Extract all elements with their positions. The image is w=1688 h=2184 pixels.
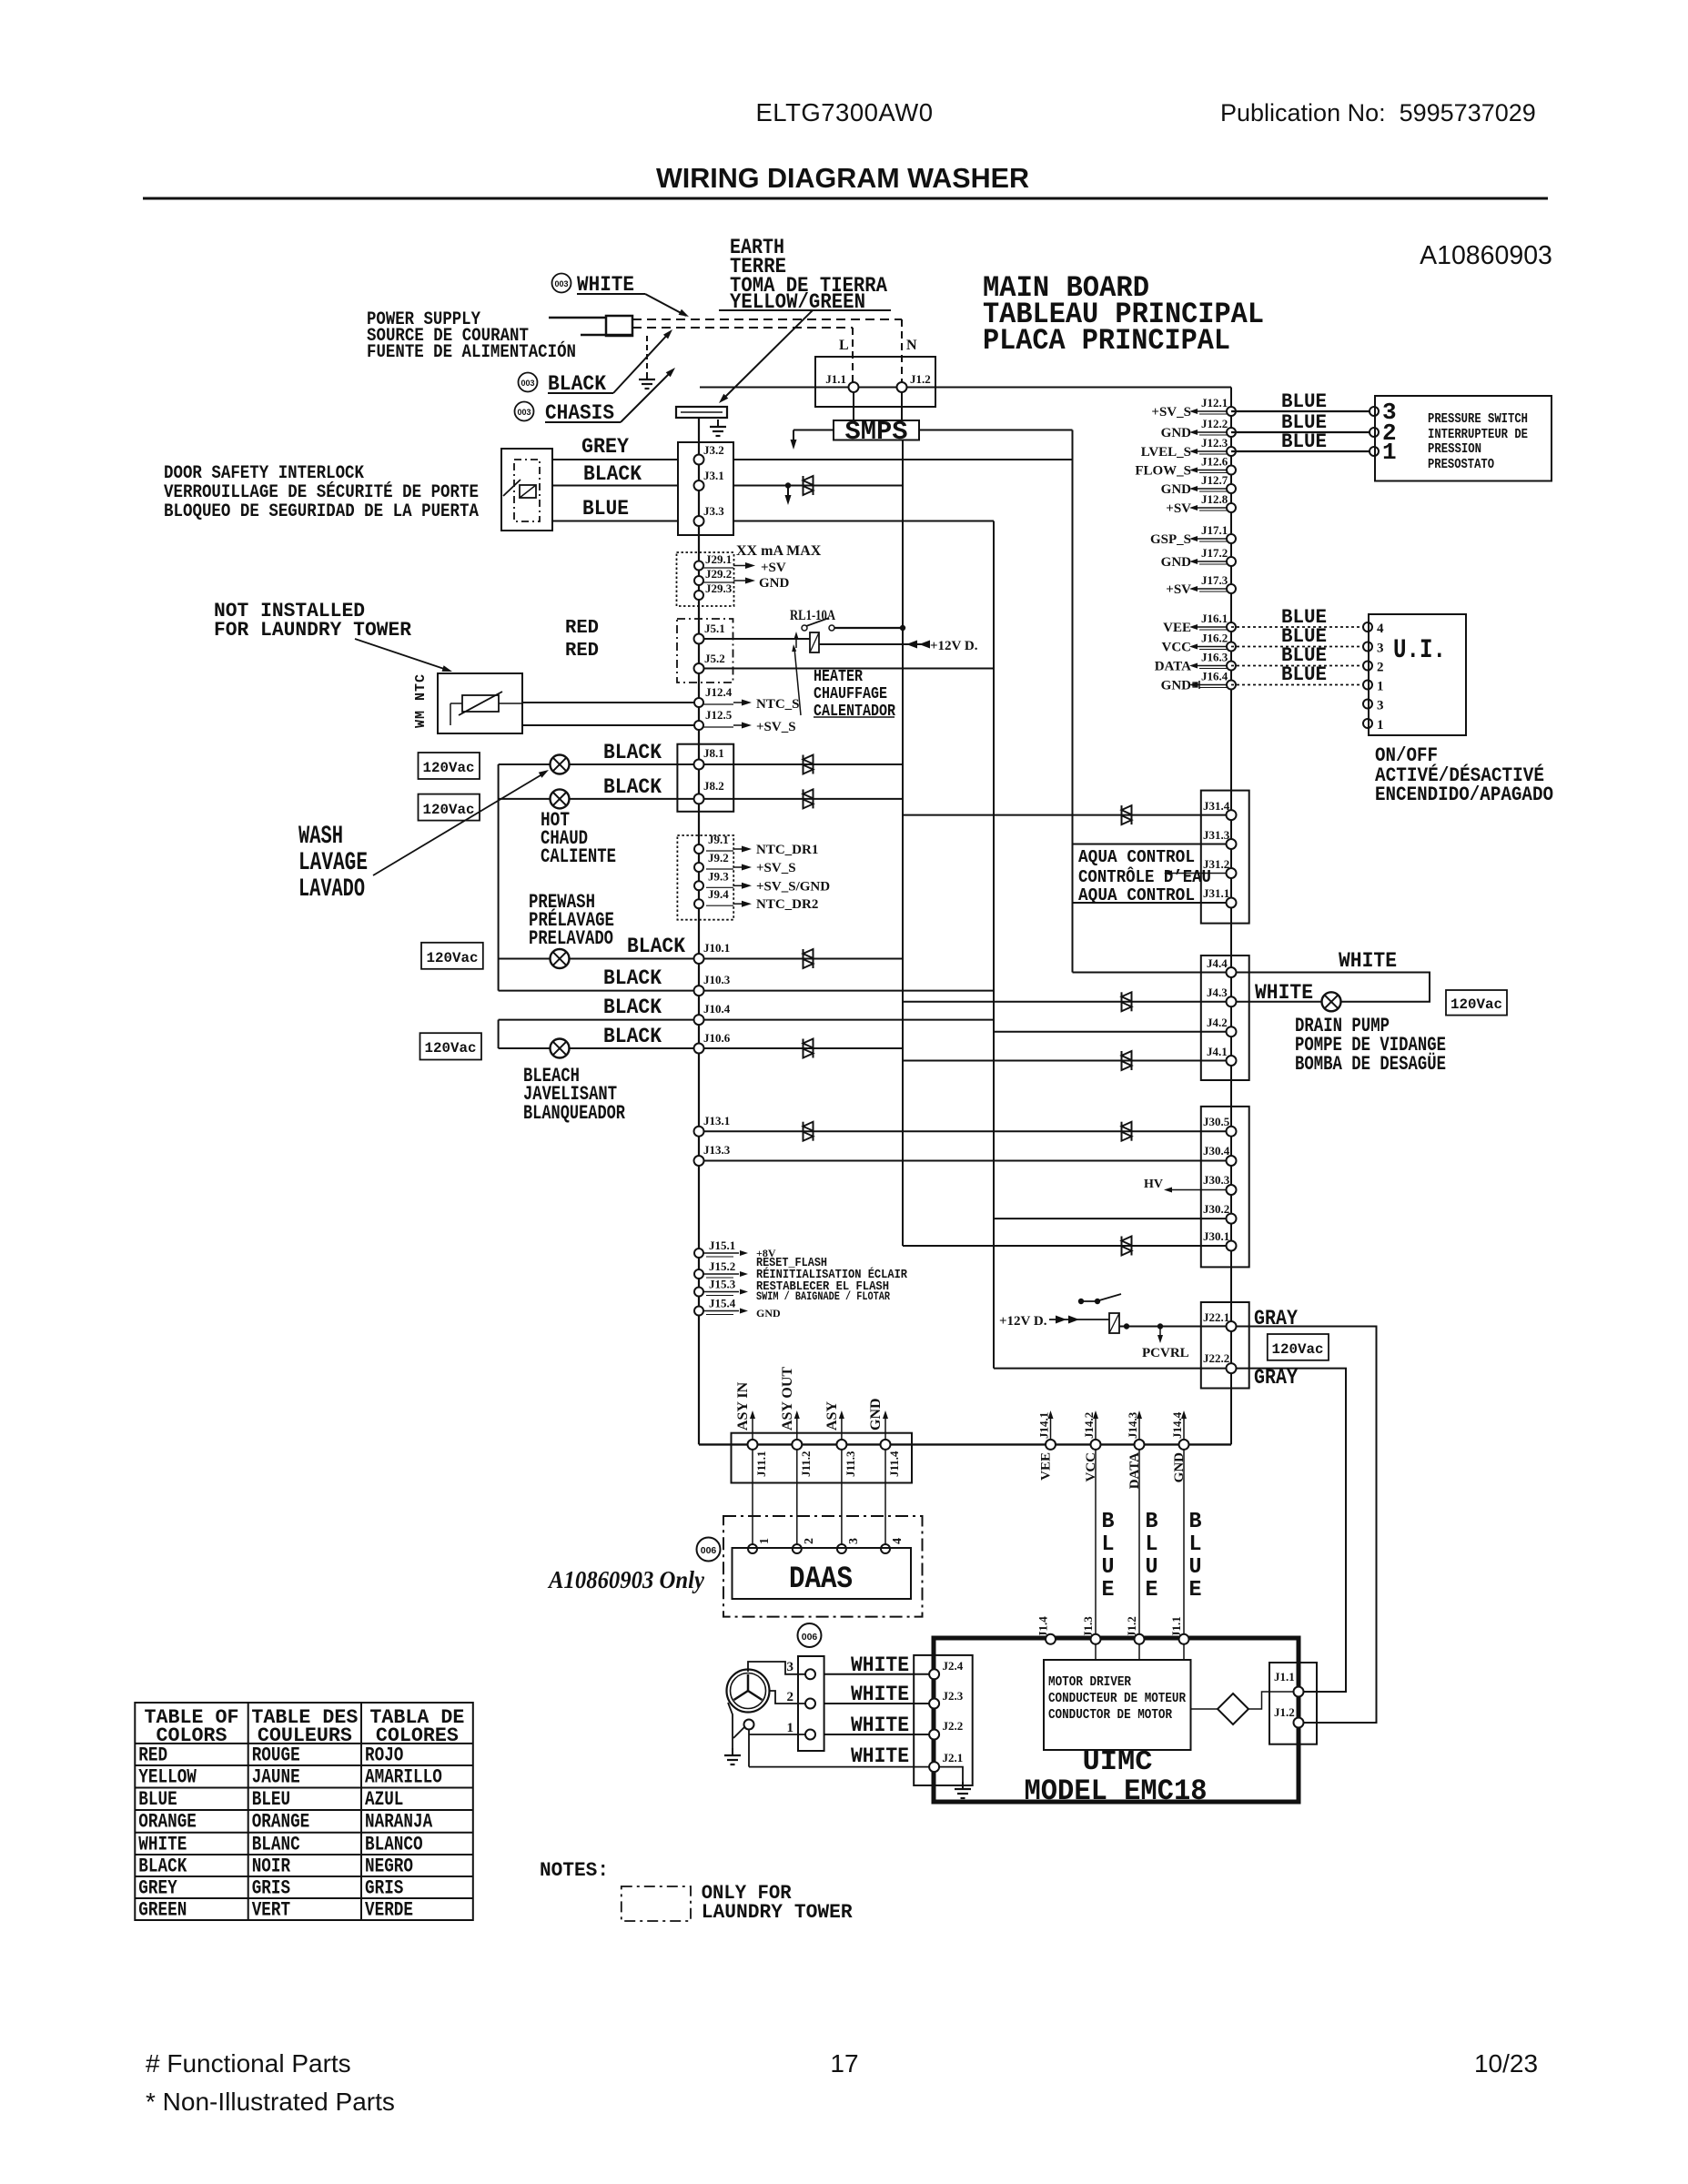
- svg-text:ASY IN: ASY IN: [735, 1381, 751, 1431]
- svg-text:VEE: VEE: [1163, 621, 1191, 635]
- svg-text:CONDUCTEUR DE MOTEUR: CONDUCTEUR DE MOTEUR: [1048, 1691, 1186, 1706]
- svg-text:+12V D.: +12V D.: [930, 639, 978, 653]
- svg-text:BLACK: BLACK: [603, 1025, 662, 1048]
- svg-text:10/23: 10/23: [1474, 2049, 1538, 2078]
- svg-text:GREEN: GREEN: [138, 1899, 187, 1922]
- svg-text:3: 3: [847, 1538, 861, 1544]
- svg-text:J14.4: J14.4: [1170, 1411, 1184, 1439]
- svg-text:U.I.: U.I.: [1393, 635, 1446, 666]
- svg-text:J16.4: J16.4: [1201, 670, 1228, 683]
- svg-text:2: 2: [787, 1690, 794, 1704]
- svg-text:WHITE: WHITE: [1339, 949, 1397, 973]
- svg-text:BLUE: BLUE: [1281, 430, 1327, 453]
- svg-text:J3.3: J3.3: [703, 504, 724, 518]
- svg-text:J12.7: J12.7: [1201, 473, 1228, 487]
- svg-text:WHITE: WHITE: [851, 1714, 909, 1737]
- svg-text:J16.2: J16.2: [1201, 632, 1228, 645]
- svg-text:HV: HV: [1144, 1178, 1163, 1191]
- svg-text:NTC_S: NTC_S: [756, 697, 800, 712]
- svg-text:LVEL_S: LVEL_S: [1141, 445, 1191, 460]
- svg-text:RED: RED: [565, 618, 599, 639]
- svg-text:GRAY: GRAY: [1254, 1366, 1298, 1390]
- svg-text:PCVRL: PCVRL: [1142, 1346, 1189, 1360]
- svg-text:120Vac: 120Vac: [425, 1040, 477, 1057]
- svg-text:GND: GND: [1161, 555, 1192, 570]
- svg-text:J5.1: J5.1: [704, 622, 725, 635]
- svg-text:ROJO: ROJO: [365, 1744, 403, 1766]
- svg-text:A10860903 Only: A10860903 Only: [547, 1566, 705, 1593]
- svg-text:UIMC: UIMC: [1083, 1746, 1153, 1778]
- svg-text:LAVAGE: LAVAGE: [298, 849, 368, 877]
- svg-text:GREY: GREY: [581, 435, 629, 459]
- svg-text:WASH: WASH: [298, 823, 343, 851]
- svg-text:J22.1: J22.1: [1203, 1310, 1229, 1324]
- svg-text:120Vac: 120Vac: [427, 950, 479, 966]
- svg-text:J15.2: J15.2: [709, 1259, 735, 1273]
- svg-text:J16.3: J16.3: [1201, 651, 1228, 664]
- svg-text:J30.4: J30.4: [1203, 1144, 1230, 1158]
- svg-text:J10.4: J10.4: [703, 1002, 731, 1016]
- svg-text:U: U: [1102, 1555, 1115, 1580]
- svg-text:NEGRO: NEGRO: [365, 1855, 413, 1878]
- svg-text:PLACA PRINCIPAL: PLACA PRINCIPAL: [983, 324, 1230, 358]
- svg-text:BLANQUEADOR: BLANQUEADOR: [523, 1102, 626, 1125]
- svg-text:BLANC: BLANC: [252, 1833, 300, 1855]
- svg-text:J9.1: J9.1: [708, 833, 729, 846]
- svg-text:WHITE: WHITE: [1255, 981, 1313, 1005]
- svg-text:VERDE: VERDE: [365, 1899, 413, 1922]
- svg-text:LAVADO: LAVADO: [298, 875, 365, 904]
- svg-text:PRESOSTATO: PRESOSTATO: [1428, 457, 1494, 472]
- svg-text:GND: GND: [1161, 679, 1192, 693]
- svg-text:NTC_DR1: NTC_DR1: [756, 843, 818, 857]
- svg-text:E: E: [1146, 1578, 1158, 1603]
- svg-text:J16.1: J16.1: [1201, 612, 1228, 625]
- svg-text:CALENTADOR: CALENTADOR: [814, 703, 895, 721]
- svg-text:U: U: [1189, 1555, 1202, 1580]
- svg-text:YELLOW: YELLOW: [138, 1766, 197, 1789]
- svg-text:GRIS: GRIS: [365, 1877, 403, 1900]
- svg-text:120Vac: 120Vac: [1450, 996, 1502, 1013]
- svg-text:E: E: [1102, 1578, 1115, 1603]
- svg-text:VERT: VERT: [252, 1899, 290, 1922]
- svg-text:J17.2: J17.2: [1201, 546, 1228, 560]
- svg-text:003: 003: [517, 408, 531, 417]
- svg-text:J17.3: J17.3: [1201, 573, 1228, 587]
- svg-text:XX mA MAX: XX mA MAX: [736, 543, 822, 559]
- svg-text:* Non-Illustrated Parts: * Non-Illustrated Parts: [146, 2088, 395, 2116]
- svg-text:17: 17: [830, 2049, 858, 2078]
- svg-text:J1.2: J1.2: [1274, 1705, 1295, 1719]
- svg-text:J13.3: J13.3: [703, 1143, 731, 1157]
- svg-text:ASY: ASY: [824, 1401, 840, 1431]
- svg-text:MODEL EMC18: MODEL EMC18: [1025, 1774, 1208, 1808]
- svg-text:J1.1: J1.1: [825, 372, 846, 386]
- svg-text:GND: GND: [756, 1307, 781, 1319]
- svg-text:BLACK: BLACK: [583, 462, 642, 486]
- svg-text:BLUE: BLUE: [1281, 663, 1327, 686]
- svg-text:B: B: [1146, 1510, 1158, 1534]
- svg-text:SMPS: SMPS: [845, 417, 908, 447]
- svg-text:J9.4: J9.4: [708, 887, 729, 901]
- svg-text:GSP_S: GSP_S: [1150, 532, 1191, 547]
- svg-text:J15.4: J15.4: [709, 1297, 736, 1310]
- svg-text:J12.4: J12.4: [705, 685, 733, 699]
- svg-text:J8.1: J8.1: [703, 746, 724, 760]
- svg-text:J5.2: J5.2: [704, 652, 725, 665]
- svg-text:L: L: [1146, 1532, 1158, 1557]
- svg-text:L: L: [839, 338, 849, 353]
- svg-text:PRESSURE SWITCH: PRESSURE SWITCH: [1428, 411, 1528, 427]
- svg-text:LAUNDRY TOWER: LAUNDRY TOWER: [702, 1901, 854, 1924]
- svg-text:CALIENTE: CALIENTE: [541, 845, 616, 868]
- svg-text:J15.1: J15.1: [709, 1239, 735, 1252]
- svg-text:J2.4: J2.4: [943, 1659, 964, 1673]
- svg-text:L: L: [1189, 1532, 1202, 1557]
- svg-text:J4.1: J4.1: [1207, 1045, 1228, 1058]
- svg-text:BLACK: BLACK: [603, 966, 662, 990]
- svg-text:J10.1: J10.1: [703, 941, 730, 955]
- svg-text:WHITE: WHITE: [138, 1833, 187, 1855]
- svg-text:CONDUCTOR DE MOTOR: CONDUCTOR DE MOTOR: [1048, 1707, 1172, 1723]
- svg-text:1: 1: [758, 1538, 772, 1544]
- svg-text:J12.3: J12.3: [1201, 436, 1228, 450]
- svg-text:NTC_DR2: NTC_DR2: [756, 897, 818, 912]
- svg-text:J11.4: J11.4: [887, 1451, 901, 1477]
- svg-text:J17.1: J17.1: [1201, 523, 1228, 537]
- svg-text:BLUE: BLUE: [582, 497, 629, 521]
- svg-text:J1.1: J1.1: [1274, 1670, 1295, 1683]
- svg-text:J9.3: J9.3: [708, 869, 729, 883]
- svg-text:BLACK: BLACK: [603, 741, 662, 764]
- svg-text:N: N: [906, 338, 917, 353]
- svg-text:GND: GND: [868, 1398, 884, 1431]
- svg-text:4: 4: [1377, 622, 1384, 636]
- svg-text:BLUE: BLUE: [1281, 390, 1327, 413]
- svg-text:INTERRUPTEUR DE: INTERRUPTEUR DE: [1428, 427, 1528, 442]
- svg-text:WHITE: WHITE: [851, 1683, 909, 1706]
- svg-text:DAAS: DAAS: [789, 1562, 853, 1597]
- svg-text:VEE: VEE: [1039, 1452, 1054, 1481]
- svg-text:WIRING DIAGRAM WASHER: WIRING DIAGRAM WASHER: [656, 163, 1029, 194]
- svg-text:J3.2: J3.2: [703, 443, 724, 457]
- svg-text:GND: GND: [1161, 426, 1192, 440]
- svg-text:NARANJA: NARANJA: [365, 1811, 433, 1834]
- svg-text:ORANGE: ORANGE: [252, 1811, 310, 1834]
- svg-text:FUENTE DE ALIMENTACIÓN: FUENTE DE ALIMENTACIÓN: [367, 341, 576, 363]
- svg-text:WHITE: WHITE: [851, 1744, 909, 1768]
- svg-text:J11.2: J11.2: [799, 1451, 813, 1477]
- svg-text:J13.1: J13.1: [703, 1114, 730, 1127]
- svg-text:1: 1: [1377, 680, 1384, 694]
- svg-text:120Vac: 120Vac: [1272, 1341, 1324, 1358]
- svg-text:J4.2: J4.2: [1207, 1016, 1228, 1029]
- svg-text:J2.2: J2.2: [943, 1719, 964, 1733]
- svg-text:NOIR: NOIR: [252, 1855, 291, 1878]
- svg-text:GREY: GREY: [138, 1877, 177, 1900]
- svg-text:WHITE: WHITE: [851, 1653, 909, 1677]
- svg-text:BLUE: BLUE: [138, 1788, 177, 1811]
- svg-text:J3.1: J3.1: [703, 469, 724, 482]
- svg-text:J29.3: J29.3: [705, 581, 733, 595]
- svg-text:+SV: +SV: [761, 561, 786, 575]
- svg-text:CONTRÔLE D’EAU: CONTRÔLE D’EAU: [1078, 867, 1211, 887]
- svg-text:BOMBA DE DESAGÜE: BOMBA DE DESAGÜE: [1295, 1052, 1446, 1076]
- svg-text:BLACK: BLACK: [627, 935, 685, 958]
- svg-text:120Vac: 120Vac: [423, 760, 475, 776]
- svg-text:J22.2: J22.2: [1203, 1351, 1229, 1365]
- svg-text:ORANGE: ORANGE: [138, 1811, 197, 1834]
- svg-text:2: 2: [803, 1538, 816, 1544]
- svg-text:WM NTC: WM NTC: [413, 673, 429, 728]
- svg-text:J12.6: J12.6: [1201, 455, 1228, 469]
- svg-text:J29.1: J29.1: [705, 552, 732, 566]
- svg-text:J15.3: J15.3: [709, 1278, 736, 1291]
- svg-text:RED: RED: [565, 641, 599, 662]
- svg-text:DATA: DATA: [1155, 660, 1191, 674]
- svg-text:120Vac: 120Vac: [423, 802, 475, 818]
- svg-text:J14.1: J14.1: [1037, 1412, 1051, 1439]
- svg-text:RL1-10A: RL1-10A: [790, 608, 835, 623]
- svg-text:J30.2: J30.2: [1203, 1202, 1229, 1216]
- svg-text:RED: RED: [138, 1744, 167, 1766]
- svg-text:3: 3: [1377, 699, 1384, 713]
- svg-text:J4.4: J4.4: [1207, 956, 1228, 970]
- svg-text:J30.1: J30.1: [1203, 1229, 1229, 1243]
- svg-text:B: B: [1102, 1510, 1115, 1534]
- svg-text:FOR LAUNDRY TOWER: FOR LAUNDRY TOWER: [214, 619, 412, 642]
- svg-text:BLANCO: BLANCO: [365, 1833, 423, 1855]
- svg-text:FLOW_S: FLOW_S: [1135, 464, 1191, 479]
- svg-text:BLACK: BLACK: [603, 996, 662, 1019]
- svg-text:MOTOR DRIVER: MOTOR DRIVER: [1048, 1674, 1131, 1690]
- svg-text:J2.1: J2.1: [943, 1751, 964, 1764]
- svg-text:NOTES:: NOTES:: [540, 1859, 609, 1882]
- svg-text:J12.8: J12.8: [1201, 492, 1228, 506]
- svg-text:J1.3: J1.3: [1081, 1616, 1095, 1637]
- svg-text:VERROUILLAGE DE SÉCURITÉ DE PO: VERROUILLAGE DE SÉCURITÉ DE PORTE: [164, 481, 479, 503]
- svg-text:VCC: VCC: [1162, 641, 1192, 655]
- svg-text:006: 006: [802, 1632, 818, 1643]
- svg-text:Publication No: 5995737029: Publication No: 5995737029: [1220, 99, 1536, 126]
- svg-text:+SV_S: +SV_S: [756, 720, 796, 734]
- svg-text:ASY OUT: ASY OUT: [780, 1367, 795, 1431]
- svg-text:2: 2: [1377, 661, 1384, 675]
- svg-text:J29.2: J29.2: [705, 567, 732, 581]
- svg-text:A10860903: A10860903: [1420, 241, 1552, 270]
- svg-text:J14.3: J14.3: [1126, 1411, 1139, 1439]
- svg-text:J4.3: J4.3: [1207, 986, 1228, 999]
- svg-text:CHAUFFAGE: CHAUFFAGE: [814, 685, 887, 703]
- svg-text:ROUGE: ROUGE: [252, 1744, 300, 1766]
- svg-text:J11.3: J11.3: [844, 1451, 857, 1477]
- svg-text:+SV_S: +SV_S: [756, 861, 796, 875]
- svg-text:+12V D.: +12V D.: [999, 1314, 1047, 1329]
- svg-text:J8.2: J8.2: [703, 779, 724, 793]
- svg-text:003: 003: [521, 379, 534, 388]
- svg-text:+SV_S: +SV_S: [1151, 405, 1191, 420]
- svg-text:ELTG7300AW0: ELTG7300AW0: [755, 98, 933, 126]
- svg-text:SWIM / BAIGNADE / FLOTAR: SWIM / BAIGNADE / FLOTAR: [756, 1290, 890, 1303]
- svg-text:J11.1: J11.1: [754, 1451, 768, 1477]
- svg-text:J10.3: J10.3: [703, 973, 731, 986]
- svg-text:BLACK: BLACK: [138, 1855, 187, 1878]
- svg-text:+SV_S/GND: +SV_S/GND: [756, 879, 830, 894]
- svg-text:J1.1: J1.1: [1169, 1616, 1183, 1637]
- svg-text:J2.3: J2.3: [943, 1689, 964, 1703]
- svg-text:J30.3: J30.3: [1203, 1173, 1230, 1187]
- svg-text:GND: GND: [1161, 482, 1192, 497]
- svg-text:J14.2: J14.2: [1082, 1412, 1096, 1439]
- svg-text:PRESSION: PRESSION: [1428, 441, 1481, 457]
- svg-text:3: 3: [787, 1660, 794, 1674]
- svg-text:ENCENDIDO/APAGADO: ENCENDIDO/APAGADO: [1375, 784, 1553, 806]
- svg-text:E: E: [1189, 1578, 1202, 1603]
- svg-text:BLOQUEO DE SEGURIDAD DE LA PUE: BLOQUEO DE SEGURIDAD DE LA PUERTA: [164, 501, 479, 522]
- svg-text:GRIS: GRIS: [252, 1877, 290, 1900]
- svg-text:BLACK: BLACK: [603, 775, 662, 799]
- svg-text:J31.3: J31.3: [1203, 828, 1230, 842]
- svg-text:1: 1: [1382, 439, 1397, 466]
- svg-text:AZUL: AZUL: [365, 1788, 403, 1811]
- svg-text:+SV: +SV: [1166, 582, 1191, 597]
- svg-text:HEATER: HEATER: [814, 668, 863, 686]
- svg-text:BLEU: BLEU: [252, 1788, 290, 1811]
- svg-text:U: U: [1146, 1555, 1158, 1580]
- svg-text:J1.2: J1.2: [1125, 1616, 1138, 1637]
- svg-text:AQUA CONTROL: AQUA CONTROL: [1078, 885, 1195, 905]
- svg-text:J31.4: J31.4: [1203, 799, 1230, 813]
- svg-text:J12.1: J12.1: [1201, 396, 1228, 409]
- svg-text:DOOR SAFETY INTERLOCK: DOOR SAFETY INTERLOCK: [164, 463, 364, 484]
- svg-text:3: 3: [1377, 642, 1384, 656]
- svg-text:J30.5: J30.5: [1203, 1115, 1230, 1128]
- svg-text:J12.5: J12.5: [705, 708, 733, 722]
- svg-text:003: 003: [554, 279, 568, 288]
- svg-text:J31.1: J31.1: [1203, 886, 1229, 900]
- svg-text:J10.6: J10.6: [703, 1031, 731, 1045]
- svg-text:L: L: [1102, 1532, 1115, 1557]
- svg-text:PRELAVADO: PRELAVADO: [529, 927, 613, 950]
- svg-text:J12.2: J12.2: [1201, 417, 1228, 430]
- svg-text:JAUNE: JAUNE: [252, 1766, 300, 1789]
- svg-text:J1.2: J1.2: [910, 372, 931, 386]
- svg-text:J9.2: J9.2: [708, 851, 729, 864]
- svg-text:1: 1: [1377, 718, 1384, 733]
- svg-text:# Functional Parts: # Functional Parts: [146, 2049, 351, 2078]
- svg-text:1: 1: [787, 1721, 794, 1735]
- svg-text:GND: GND: [759, 576, 790, 591]
- svg-text:B: B: [1189, 1510, 1202, 1534]
- svg-text:+SV: +SV: [1166, 501, 1191, 516]
- svg-text:006: 006: [701, 1545, 717, 1556]
- svg-text:4: 4: [891, 1538, 905, 1544]
- svg-text:AMARILLO: AMARILLO: [365, 1766, 442, 1789]
- svg-text:AQUA CONTROL: AQUA CONTROL: [1078, 847, 1195, 867]
- svg-text:J1.4: J1.4: [1036, 1616, 1050, 1637]
